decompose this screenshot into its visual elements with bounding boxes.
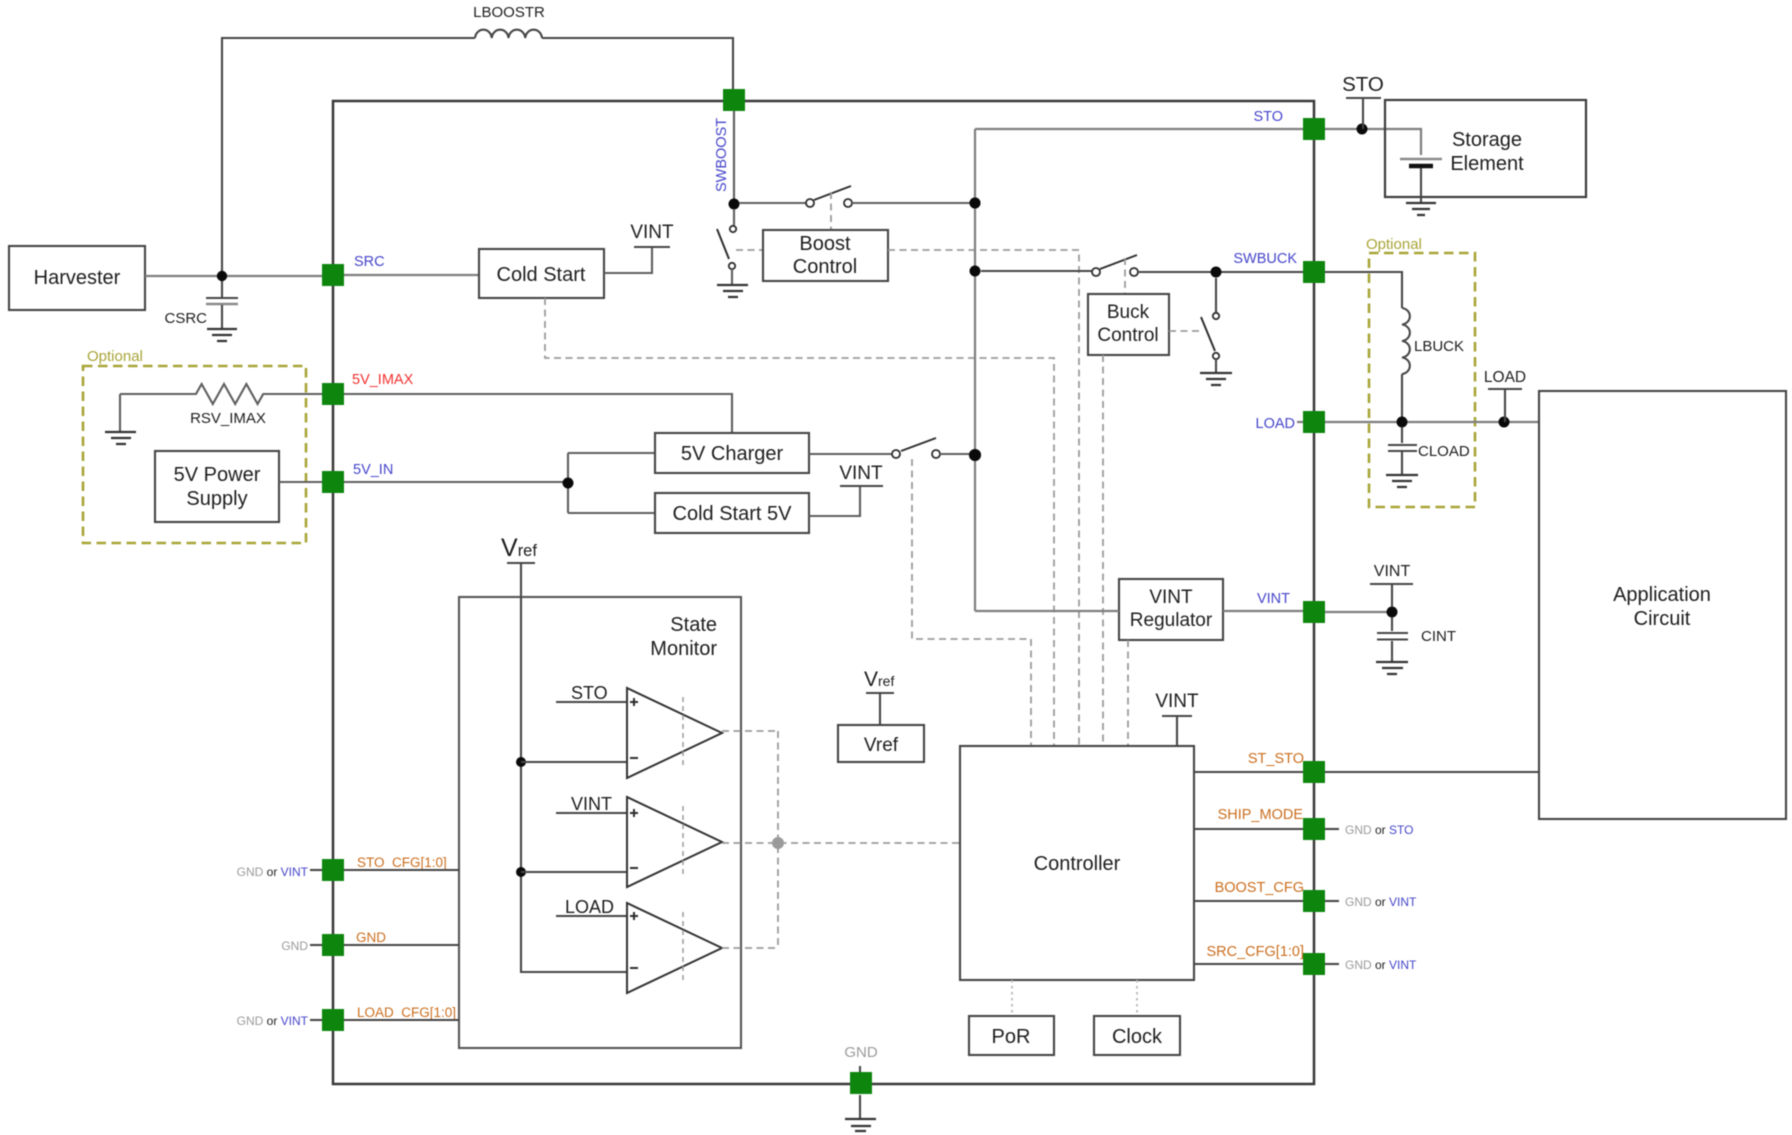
wire control dashed boost switch: [830, 192, 832, 230]
svg-text:Buck: Buck: [1107, 302, 1150, 323]
node junction: [969, 449, 981, 461]
wire regulator to VINT pin: [1223, 610, 1303, 612]
node junction: [516, 757, 526, 767]
wire stub left: [310, 944, 322, 946]
svg-text:VINT: VINT: [571, 794, 612, 814]
wire 5V_IMAX to 5V Charger: [344, 394, 732, 433]
wire cold start 5V to VINT rail: [809, 486, 860, 516]
svg-text:Element: Element: [1450, 153, 1524, 175]
wire LOAD to application: [1325, 421, 1539, 423]
wire STO to pin: [975, 128, 1303, 130]
Vref box: [838, 725, 924, 762]
wire 5V_IN to chargers: [344, 453, 655, 513]
svg-text:5V_IMAX: 5V_IMAX: [352, 372, 414, 388]
pin STO_CFG: [322, 859, 344, 881]
wire LBUCK to LOAD: [1401, 374, 1403, 422]
svg-text:SWBUCK: SWBUCK: [1233, 251, 1297, 267]
resistor RSV_IMAX: [120, 384, 322, 404]
node junction: [1357, 124, 1368, 135]
wire top boost loop: [222, 38, 733, 276]
svg-text:Supply: Supply: [186, 488, 247, 510]
Boost Control box: [763, 230, 888, 281]
pin SWBUCK: [1303, 261, 1325, 283]
svg-text:SWBOOST: SWBOOST: [714, 118, 730, 192]
svg-text:SRC_CFG[1:0]: SRC_CFG[1:0]: [1207, 944, 1305, 960]
node junction: [970, 198, 981, 209]
wire stub right: [1325, 900, 1339, 902]
pin VINT: [1303, 601, 1325, 623]
Application Circuit box: [1539, 391, 1786, 819]
VINT rail symbol: [1370, 584, 1413, 607]
svg-text:5V Power: 5V Power: [174, 464, 261, 486]
svg-text:STO_CFG[1:0]: STO_CFG[1:0]: [357, 855, 447, 870]
svg-text:GND or VINT: GND or VINT: [237, 865, 309, 879]
svg-text:Optional: Optional: [87, 348, 143, 365]
svg-text:Boost: Boost: [799, 233, 851, 255]
ground: [845, 1119, 876, 1131]
ground: [1406, 203, 1436, 215]
wire stub left: [310, 869, 322, 871]
switch 5V charger output: [809, 453, 892, 455]
switch boost low side: [733, 209, 735, 225]
Cold Start box: [479, 249, 604, 298]
VINT rail symbol: [634, 246, 670, 248]
optional dashed box left: [83, 366, 306, 543]
wire BOOST_CFG: [1194, 900, 1303, 902]
wire control dashed boost to controller: [888, 250, 1079, 746]
wire resistor to ground: [119, 394, 121, 431]
wire 5V supply to pin: [279, 481, 322, 483]
svg-text:ST_STO: ST_STO: [1248, 751, 1304, 767]
node junction: [516, 867, 526, 877]
wire control dashed cold start: [545, 298, 1054, 746]
pin GND left: [322, 934, 344, 956]
VINT rail symbol: [840, 485, 883, 487]
IC boundary: [333, 101, 1314, 1084]
wire to storage element: [1325, 129, 1421, 155]
node junction at CSRC: [217, 271, 227, 281]
node junction: [970, 266, 981, 277]
svg-text:Control: Control: [1097, 325, 1158, 346]
wire Vref rail vertical: [521, 597, 627, 972]
svg-text:VINT: VINT: [1149, 587, 1193, 608]
ground: [1376, 662, 1408, 674]
svg-text:Monitor: Monitor: [650, 638, 717, 660]
pin SRC_CFG: [1303, 953, 1325, 975]
LOAD rail symbol: [1488, 389, 1522, 422]
pin SWBOOST: [723, 89, 745, 111]
capacitor CINT: [1391, 617, 1393, 631]
node junction: [1499, 417, 1510, 428]
svg-text:STO: STO: [1253, 109, 1283, 125]
svg-text:Vref: Vref: [864, 668, 894, 691]
wire control dashed buck low: [1169, 330, 1200, 332]
STO rail symbol: [1346, 98, 1381, 129]
wire LOAD_CFG to monitor: [344, 1019, 459, 1021]
svg-text:GND: GND: [281, 939, 308, 953]
wire ST_STO: [1194, 771, 1539, 773]
inductor LBUCK: [1402, 308, 1410, 374]
svg-text:5V Charger: 5V Charger: [681, 443, 784, 465]
wire dotted controller to Clock: [1136, 980, 1138, 1016]
pin SRC: [322, 264, 344, 286]
wire GND to ground: [859, 1066, 861, 1118]
svg-text:STO: STO: [571, 683, 608, 703]
svg-text:GND or VINT: GND or VINT: [1345, 958, 1417, 972]
wire control dashed buck switch: [1124, 258, 1126, 294]
Buck Control box: [1088, 294, 1169, 355]
node junction: [729, 199, 740, 210]
node gray junction: [772, 837, 784, 849]
wire rail mid vertical: [974, 129, 976, 611]
Storage Element box: [1385, 100, 1586, 197]
svg-text:CLOAD: CLOAD: [1418, 443, 1470, 460]
svg-text:Controller: Controller: [1034, 853, 1121, 875]
wire SRC_CFG: [1194, 963, 1303, 965]
pin STO: [1303, 118, 1325, 140]
wire stub right: [1325, 828, 1339, 830]
svg-text:VINT: VINT: [630, 222, 674, 243]
Controller box: [960, 746, 1194, 980]
Cold Start 5V box: [655, 493, 809, 533]
svg-text:LOAD: LOAD: [1256, 416, 1296, 432]
wire dashed comparator outputs: [722, 731, 960, 948]
wire SRC to Cold Start: [344, 274, 479, 276]
svg-text:Regulator: Regulator: [1130, 610, 1213, 631]
svg-text:GND: GND: [356, 930, 386, 945]
State Monitor box: [459, 597, 741, 1048]
5V Charger box: [655, 433, 809, 473]
svg-text:SRC: SRC: [354, 254, 385, 270]
wire stub right: [1325, 963, 1339, 965]
wire SWBUCK to LBUCK: [1325, 272, 1402, 308]
switch boost high side: [739, 202, 806, 204]
wire STO_CFG to monitor: [344, 869, 459, 871]
svg-text:VINT: VINT: [839, 463, 883, 484]
ground: [1200, 373, 1232, 385]
svg-text:GND: GND: [844, 1044, 878, 1061]
5V Power Supply box: [155, 451, 279, 522]
node junction 5V_IN: [563, 478, 574, 489]
wire dotted controller to PoR: [1011, 980, 1013, 1016]
wire control dashed 5V switch: [912, 459, 1031, 746]
svg-text:Storage: Storage: [1452, 129, 1522, 151]
svg-text:Clock: Clock: [1112, 1026, 1163, 1048]
op-amp comparator VINT: [627, 797, 722, 887]
svg-text:Circuit: Circuit: [1634, 608, 1691, 630]
Harvester box: [9, 246, 145, 310]
Clock box: [1094, 1016, 1180, 1055]
svg-text:Control: Control: [793, 256, 857, 278]
svg-text:Application: Application: [1613, 584, 1711, 606]
svg-text:PoR: PoR: [992, 1026, 1031, 1048]
battery symbol: [1400, 158, 1442, 161]
wire control dashed regulator to controller: [1127, 640, 1129, 746]
pin ST_STO: [1303, 761, 1325, 783]
ground: [717, 285, 748, 297]
VINT Regulator box: [1119, 579, 1223, 640]
wire SWBOOST down: [733, 111, 735, 203]
pin LOAD_CFG: [322, 1009, 344, 1031]
wire stub left: [310, 1019, 322, 1021]
wire harvester to SRC: [145, 275, 322, 277]
svg-text:GND or VINT: GND or VINT: [1345, 895, 1417, 909]
op-amp comparator STO: [627, 688, 722, 778]
node junction: [1387, 607, 1398, 618]
svg-text:State: State: [670, 614, 717, 636]
op-amp comparator LOAD: [627, 903, 722, 993]
svg-text:LOAD: LOAD: [565, 897, 614, 917]
svg-text:LBOOSTR: LBOOSTR: [473, 4, 545, 21]
ground: [1386, 475, 1418, 487]
svg-text:RSV_IMAX: RSV_IMAX: [190, 410, 266, 427]
svg-text:VINT: VINT: [1155, 691, 1199, 712]
ground: [105, 432, 136, 444]
svg-text:Cold Start: Cold Start: [497, 264, 586, 286]
pin 5V_IN: [322, 471, 344, 493]
svg-text:Cold Start 5V: Cold Start 5V: [673, 503, 793, 525]
pin 5V_IMAX: [322, 383, 344, 405]
wire comparator minus inputs: [521, 762, 627, 872]
svg-text:5V_IN: 5V_IN: [353, 462, 393, 478]
pin LOAD: [1303, 411, 1325, 433]
svg-text:CSRC: CSRC: [164, 310, 207, 327]
optional dashed box right: [1369, 253, 1475, 507]
svg-text:Vref: Vref: [864, 735, 899, 756]
svg-text:GND or VINT: GND or VINT: [237, 1014, 309, 1028]
inductor LBOOSTR: [475, 30, 542, 38]
wire control dashed buck to controller: [1102, 355, 1104, 746]
svg-text:Harvester: Harvester: [34, 267, 121, 289]
pin BOOST_CFG: [1303, 890, 1325, 912]
svg-text:Optional: Optional: [1366, 236, 1422, 253]
svg-text:VINT: VINT: [1374, 563, 1411, 580]
pin SHIP_MODE: [1303, 818, 1325, 840]
svg-text:CINT: CINT: [1421, 628, 1456, 645]
PoR box: [969, 1016, 1054, 1055]
capacitor CLOAD: [1401, 427, 1403, 443]
svg-text:VINT: VINT: [1257, 591, 1290, 607]
svg-text:BOOST_CFG: BOOST_CFG: [1215, 880, 1304, 896]
svg-text:LOAD_CFG[1:0]: LOAD_CFG[1:0]: [357, 1005, 456, 1020]
svg-text:STO: STO: [1342, 73, 1384, 96]
svg-text:LBUCK: LBUCK: [1414, 338, 1464, 355]
svg-text:Vref: Vref: [501, 534, 537, 562]
svg-text:LOAD: LOAD: [1484, 369, 1526, 386]
wire GND to monitor: [344, 944, 459, 946]
wire VINT pin to CINT: [1325, 611, 1392, 613]
wire cold start to VINT rail: [604, 248, 652, 273]
svg-text:SHIP_MODE: SHIP_MODE: [1218, 807, 1304, 823]
wire rail to regulator: [975, 610, 1119, 612]
switch buck high side: [981, 270, 1092, 272]
node junction: [1397, 417, 1408, 428]
capacitor CSRC: [221, 281, 223, 297]
pin GND bottom: [850, 1072, 872, 1094]
node junction on rail: [969, 449, 981, 461]
svg-text:GND or STO: GND or STO: [1345, 823, 1413, 837]
node junction: [970, 198, 981, 209]
node junction: [1211, 267, 1222, 278]
wire control dashed low switch: [736, 249, 763, 251]
switch buck low side: [1215, 278, 1217, 312]
wire SHIP_MODE: [1194, 828, 1303, 830]
